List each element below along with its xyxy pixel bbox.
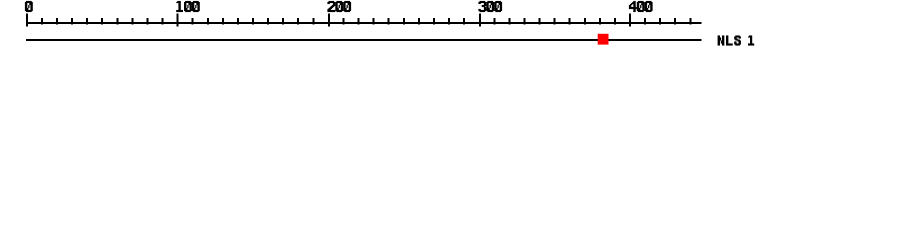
major tick 100	[177, 14, 179, 27]
minor ticks (every 10 units)	[41, 18, 691, 25]
ruler axis line	[26, 22, 702, 24]
sequence line	[26, 39, 702, 41]
major tick 400	[629, 14, 631, 27]
background	[0, 0, 900, 58]
ruler label 200	[327, 1, 351, 12]
major tick 300	[479, 14, 481, 27]
feature box NLS (red)	[598, 34, 609, 45]
ruler label 0	[25, 1, 33, 12]
major tick 200	[328, 14, 330, 27]
feature label NLS 1	[718, 35, 755, 45]
ruler label 400	[629, 1, 653, 12]
ruler label 300	[478, 1, 502, 12]
major tick 0	[26, 14, 28, 27]
protein sequence feature map: ruler + sequence line + NLS 1 feature	[0, 0, 900, 58]
ruler label 100	[176, 1, 200, 12]
